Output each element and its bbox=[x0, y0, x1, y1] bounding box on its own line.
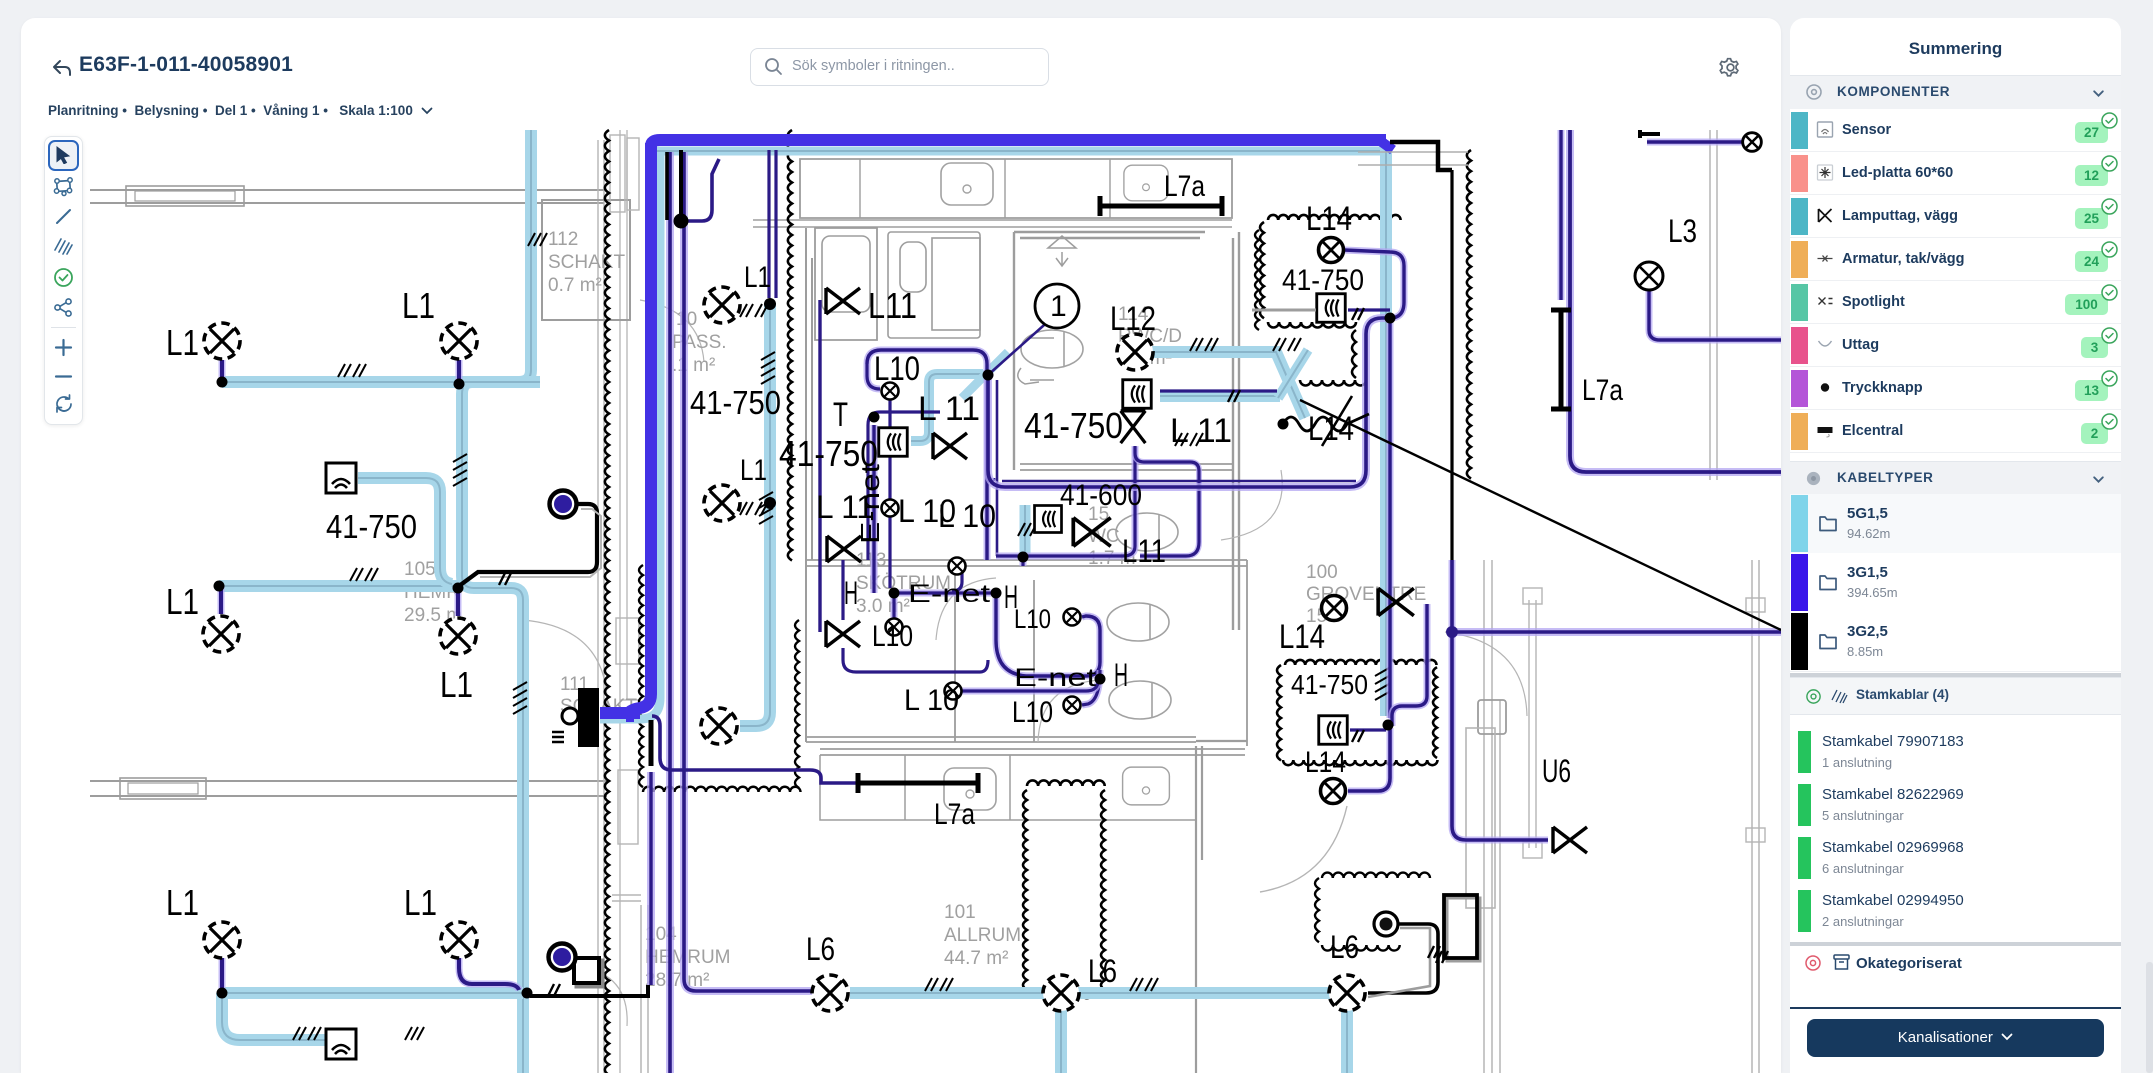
cable L12 row horizontal 2 bbox=[1160, 390, 1280, 402]
double slash hatches on black wires bbox=[499, 573, 511, 585]
wire groventre vertical x1452 bbox=[1450, 170, 1453, 560]
bowtie L11 mid bbox=[933, 433, 967, 459]
sensor hatch links bbox=[1352, 308, 1364, 320]
wire elcentral 111 black leads bbox=[652, 716, 858, 783]
svg-text:L 11: L 11 bbox=[816, 489, 874, 525]
wire tryckknapp 105 black bbox=[459, 504, 597, 586]
svg-text:41-750: 41-750 bbox=[326, 508, 417, 545]
door leaf tall rect bbox=[1466, 728, 1495, 908]
svg-text:L 11: L 11 bbox=[918, 390, 980, 428]
wire cloud1 sensor link bbox=[1348, 308, 1390, 311]
svg-text:ALLRUM: ALLRUM bbox=[944, 925, 1021, 946]
black top-right mini walls bbox=[1640, 130, 1660, 138]
wire L10 loop rounded top bbox=[867, 350, 987, 560]
svg-text:L11: L11 bbox=[1122, 533, 1166, 569]
lamp top right corner bbox=[1743, 133, 1762, 152]
cable 5G1,5 trunk vertical top bbox=[462, 130, 531, 1073]
wire L1 stems row1 bbox=[219, 360, 226, 382]
sensor cloud2 bbox=[1319, 716, 1348, 745]
svg-text:L1: L1 bbox=[166, 322, 199, 363]
svg-text:L1: L1 bbox=[440, 664, 473, 705]
wire tryckknapp 104 black run bbox=[530, 985, 648, 996]
svg-text:41-750: 41-750 bbox=[690, 384, 781, 421]
wire L3 drop bbox=[1649, 288, 1781, 340]
wire corridor drop to elcentral2 bbox=[647, 772, 655, 985]
svg-text:L 10: L 10 bbox=[904, 684, 959, 717]
door leafs corridor top bbox=[610, 135, 625, 212]
wire main down from junction1 bbox=[988, 318, 1390, 487]
sensor 41-750 mid bbox=[879, 428, 908, 457]
lamp L14 mid bbox=[1322, 596, 1347, 621]
small cabinet room left of bath bbox=[815, 228, 877, 340]
svg-text:L 11: L 11 bbox=[1170, 412, 1232, 450]
svg-text:L1: L1 bbox=[740, 454, 767, 487]
black wall top right corner steps bbox=[1390, 142, 1452, 170]
elcentral 111 symbol bbox=[578, 688, 599, 747]
cable run L1 row2 horizontal bbox=[219, 580, 458, 592]
svg-text:T: T bbox=[833, 396, 848, 434]
svg-text:41-600: 41-600 bbox=[1060, 479, 1142, 512]
black bar L7a right vertical bbox=[1551, 310, 1571, 409]
toilet 115 wc bbox=[1116, 513, 1178, 551]
wire tryckknapp bottomright black bbox=[1368, 924, 1438, 993]
wire black stub top-left 2 bbox=[679, 150, 683, 221]
svg-text:E-net: E-net bbox=[1014, 664, 1096, 692]
wire bath left vertical x820 bbox=[818, 300, 821, 632]
kitchen counter band top bbox=[800, 159, 1232, 218]
svg-text:L7a: L7a bbox=[1164, 170, 1205, 203]
lamp L1 pass b bbox=[704, 485, 740, 521]
insulation wavy closet 104 bbox=[639, 565, 643, 787]
wire black stub top-left 1 bbox=[665, 152, 669, 220]
svg-text:L1: L1 bbox=[166, 882, 199, 923]
lamp L1 r1b bbox=[441, 323, 477, 359]
top bar bbox=[50, 56, 74, 80]
svg-text:L7a: L7a bbox=[1582, 374, 1623, 407]
svg-text:3.0 m²: 3.0 m² bbox=[856, 596, 910, 617]
cable cross diagonal bbox=[1278, 350, 1308, 398]
kitchen sink top 1 bbox=[941, 163, 993, 205]
bottom sink 2 bbox=[1123, 767, 1170, 805]
wire skotrum H junctions bbox=[874, 560, 996, 618]
wire top-left elbow black to indigo bbox=[681, 159, 719, 221]
svg-text:101: 101 bbox=[944, 902, 976, 923]
svg-text:L10: L10 bbox=[1014, 604, 1051, 634]
black stub below blue corner bbox=[649, 720, 654, 766]
right sidebar bbox=[1790, 18, 2121, 1073]
lamp L14 low bbox=[1321, 779, 1346, 804]
svg-text:L14: L14 bbox=[1305, 746, 1346, 779]
svg-text:.1 m²: .1 m² bbox=[672, 355, 715, 376]
bath block lower walls bbox=[806, 560, 1247, 746]
svg-text:L1: L1 bbox=[166, 581, 199, 622]
cloud 41-750 upper right bbox=[1268, 215, 1401, 220]
lamp L12 bbox=[1117, 334, 1153, 370]
svg-text:41-750: 41-750 bbox=[1282, 264, 1364, 297]
lamp L1 r2a bbox=[203, 616, 239, 652]
wire bowtie 114 down and left bbox=[996, 446, 1135, 566]
cable 41-600 stub bbox=[1020, 505, 1031, 556]
cable star diag stub bbox=[962, 352, 1008, 398]
left toolbar bbox=[44, 136, 83, 425]
cable vertical right of corridor x771 bbox=[740, 304, 770, 726]
wire lamp L10 pair lower bbox=[1082, 670, 1100, 705]
lamp L6 c bbox=[1329, 975, 1365, 1011]
tryckknapp 104 bbox=[549, 944, 576, 971]
svg-text:L14: L14 bbox=[1279, 618, 1325, 656]
wire vertical pair right of corridor bbox=[767, 150, 770, 298]
door frame structure center-bottom bbox=[1484, 560, 1500, 1073]
toilet seat room 114 bbox=[1018, 338, 1054, 384]
wire L12 sensor row indigo bbox=[1160, 389, 1277, 392]
wire E-net2 junction link bbox=[952, 683, 1098, 691]
sliding door track bbox=[1529, 600, 1536, 848]
door leafs corridor bbox=[616, 618, 639, 664]
cable bottom right vertical bbox=[1341, 1010, 1353, 1073]
svg-text:L10: L10 bbox=[874, 350, 920, 388]
cable parallel right of blue vertical bbox=[600, 155, 660, 719]
lamp L14 top bbox=[1319, 238, 1344, 263]
stamkabel bright blue left vertical bbox=[626, 143, 651, 716]
wire room114 right wall drop bbox=[1135, 447, 1199, 556]
wire pair corridor vertical 2 bbox=[684, 152, 816, 991]
junction dot pass a bbox=[764, 298, 776, 310]
lamp L6 b bbox=[1043, 975, 1079, 1011]
hatch lamp pass b bbox=[740, 502, 768, 515]
wire L1 stems row3 bbox=[219, 958, 226, 993]
insulation wavy wall left corridor bbox=[605, 130, 609, 1073]
lamp L1 r3a bbox=[204, 922, 240, 958]
toilet wc upper bbox=[1107, 603, 1169, 641]
lamp L1 r1a bbox=[204, 323, 240, 359]
cable hatches bbox=[338, 364, 366, 377]
svg-text:L7a: L7a bbox=[934, 798, 975, 831]
page scrollbar bbox=[2146, 962, 2153, 1073]
cable sensor branch upper bbox=[358, 478, 452, 584]
window frame top-left wall bbox=[126, 186, 244, 206]
svg-text:H: H bbox=[844, 575, 858, 611]
stamkabel bright blue top horizontal bbox=[651, 140, 1386, 146]
cable run L1 row1 horizontal bbox=[222, 376, 540, 388]
circled 1 ref bbox=[1035, 284, 1079, 328]
svg-text:L14: L14 bbox=[1308, 410, 1354, 448]
elcentral 104 box bbox=[577, 961, 602, 986]
wire cloud2 sensor link bbox=[1350, 728, 1386, 731]
wire skotrum loop bbox=[868, 412, 940, 560]
small lamps skotrum bbox=[882, 383, 899, 400]
cable trunk x1386 vertical bbox=[1380, 146, 1392, 716]
svg-text:L6: L6 bbox=[1330, 929, 1359, 965]
lamp L3 bbox=[1635, 262, 1663, 290]
bowtie L11 top bbox=[826, 288, 860, 314]
bowtie 115 bbox=[1073, 518, 1110, 547]
lamp L1 r3b bbox=[441, 922, 477, 958]
black hatch box right bbox=[1447, 898, 1480, 961]
wire bowtie skotrum lower stub bbox=[843, 560, 988, 672]
lamp L1 pass a bbox=[704, 287, 740, 323]
wall top-left horizontal double bbox=[90, 190, 604, 203]
tryckknapp 105 bbox=[550, 491, 577, 518]
window frame mid-left wall bbox=[120, 778, 206, 799]
right tall wall pair upper bbox=[1710, 130, 1717, 480]
lamp L1 104 bbox=[701, 708, 737, 744]
window sill right gray bbox=[1358, 152, 1468, 165]
black wall L7a bar kitchen bottom bbox=[858, 773, 978, 793]
svg-text:L6: L6 bbox=[1088, 953, 1117, 989]
sensor 105 bbox=[326, 463, 356, 493]
schakt room 112 box bbox=[542, 200, 630, 320]
toilet room 114 bbox=[1021, 330, 1083, 368]
cable L12 row horizontal 1 bbox=[1152, 352, 1305, 418]
cloud tryckknapp bottom right bbox=[1322, 873, 1430, 878]
wire pair corridor vertical 1 bbox=[666, 152, 674, 1073]
cable top parallel under blue bbox=[656, 147, 1380, 156]
svg-text:L6: L6 bbox=[806, 931, 835, 967]
wire L7a right riser bbox=[1558, 130, 1565, 300]
svg-text:L3: L3 bbox=[1668, 213, 1697, 249]
kitchen sink top 2 bbox=[1124, 165, 1168, 201]
corridor left gray lines bbox=[598, 140, 604, 1073]
insulation wavy wall x1471 top bbox=[1467, 150, 1471, 479]
wire L1 stems row2 bbox=[218, 586, 225, 614]
svg-text:L12: L12 bbox=[1110, 300, 1156, 338]
wire junction2 to lamp L14 lower bbox=[1348, 728, 1390, 791]
wire L10 lamp to run bbox=[952, 566, 962, 591]
cable branch bottom sensor bbox=[222, 993, 326, 1040]
long diagonal line bbox=[1300, 400, 1781, 630]
door arc groventre bbox=[1260, 806, 1347, 892]
lamp L6 a bbox=[812, 975, 848, 1011]
svg-text:1: 1 bbox=[1050, 290, 1067, 323]
black wall L7a bar kitchen top bbox=[1100, 196, 1222, 216]
svg-text:44.7 m²: 44.7 m² bbox=[944, 948, 1008, 969]
stamkabel blue corner shadow bbox=[1379, 140, 1393, 150]
svg-text:U6: U6 bbox=[1542, 753, 1571, 789]
bowtie L14 bbox=[1378, 588, 1414, 615]
wire L14 squiggle bbox=[1283, 414, 1369, 431]
stamkabel into elcentral 111 bbox=[600, 707, 640, 719]
wire U6 horizontal y632 bbox=[1452, 628, 1781, 636]
bowtie L11 skot bbox=[826, 621, 860, 647]
lamp L1 r2b bbox=[440, 618, 476, 654]
wire top right horizontal bbox=[1647, 139, 1746, 146]
shower arrow room 114 bbox=[1048, 236, 1076, 266]
cloud 41-750 lower right bbox=[1285, 660, 1436, 665]
wire right Z into junction2 bbox=[1392, 604, 1427, 726]
toilet wc lower bbox=[1109, 681, 1171, 719]
door frame grays bottom corridor bbox=[612, 895, 648, 1073]
insulation wavy right wall at 1259 bbox=[1255, 230, 1259, 330]
svg-text:L10: L10 bbox=[872, 620, 913, 653]
sensor 41-600 bbox=[1035, 506, 1062, 533]
cable allrum horizontal L6 bbox=[850, 987, 1330, 999]
svg-text:100: 100 bbox=[1306, 562, 1338, 583]
hatch lamp pass a bbox=[740, 304, 768, 317]
door arcs bbox=[640, 300, 704, 362]
tryckknapp cloud bbox=[1374, 912, 1398, 936]
wire thin vertical x997 bbox=[996, 380, 999, 556]
wire parallel conductor y481 bbox=[994, 478, 1356, 481]
insulation wavy wall right of corridor upper bbox=[788, 130, 792, 561]
wire junction1 up through cloud to lamp L14 bbox=[1344, 250, 1404, 318]
cable allrum vertical down 1 bbox=[1055, 993, 1067, 1073]
svg-text:L 10: L 10 bbox=[938, 498, 996, 534]
svg-text:E-net: E-net bbox=[908, 580, 990, 608]
wire vertical x1392 between clouds bbox=[1387, 318, 1394, 718]
room 113 skotrum walls bbox=[806, 228, 812, 742]
svg-text:41-750: 41-750 bbox=[1291, 669, 1368, 700]
sensor 104 bbox=[326, 1029, 356, 1059]
junction dots bbox=[217, 377, 228, 388]
svg-text:L1: L1 bbox=[402, 285, 435, 326]
bowtie 114 bbox=[1121, 411, 1146, 443]
svg-text:112: 112 bbox=[548, 229, 578, 250]
cable star to sensor S bbox=[911, 374, 983, 441]
wire junction to circled 1 diagonal bbox=[988, 318, 1052, 375]
sensor L12 bbox=[1123, 380, 1152, 409]
wire E-net vertical bbox=[871, 425, 878, 580]
insulation island allrum bbox=[1023, 790, 1027, 990]
bowtie L11 skot2 bbox=[827, 536, 861, 562]
junction dot pass b bbox=[764, 497, 776, 509]
kitchen counter band bottom bbox=[820, 749, 1245, 755]
svg-text:H: H bbox=[1114, 657, 1128, 693]
svg-text:41-750: 41-750 bbox=[1024, 405, 1123, 446]
svg-text:0.7 m²: 0.7 m² bbox=[548, 275, 602, 296]
wire loop left limb to lamp bbox=[867, 364, 880, 389]
short diagonal slash L14 bbox=[1322, 396, 1352, 446]
wall under counter bbox=[753, 220, 1232, 227]
bowtie U6 bbox=[1553, 827, 1587, 853]
svg-text:L11: L11 bbox=[868, 285, 917, 326]
svg-text:L10: L10 bbox=[1012, 696, 1053, 729]
wire lamp L10 down to H bbox=[888, 398, 891, 588]
sensor cloud1 bbox=[1317, 294, 1346, 323]
svg-text:L14: L14 bbox=[1306, 200, 1352, 238]
corridor right gray lines bbox=[620, 130, 640, 1073]
wc cubicle fixtures bbox=[888, 232, 980, 338]
svg-text:L1: L1 bbox=[404, 882, 437, 923]
room 114 RWC/D walls bbox=[1014, 232, 1239, 630]
svg-text:105: 105 bbox=[404, 559, 436, 580]
right tall wall pair lower bbox=[1752, 560, 1759, 1073]
bottom sink 1 bbox=[944, 768, 996, 810]
wire H2 big curve down bbox=[996, 593, 1100, 676]
cable run L1 row3 bottom bbox=[222, 987, 523, 999]
svg-text:L1: L1 bbox=[744, 261, 771, 294]
wall mid-left horizontal double bbox=[90, 781, 607, 796]
svg-text:SCHAKT: SCHAKT bbox=[548, 252, 625, 273]
